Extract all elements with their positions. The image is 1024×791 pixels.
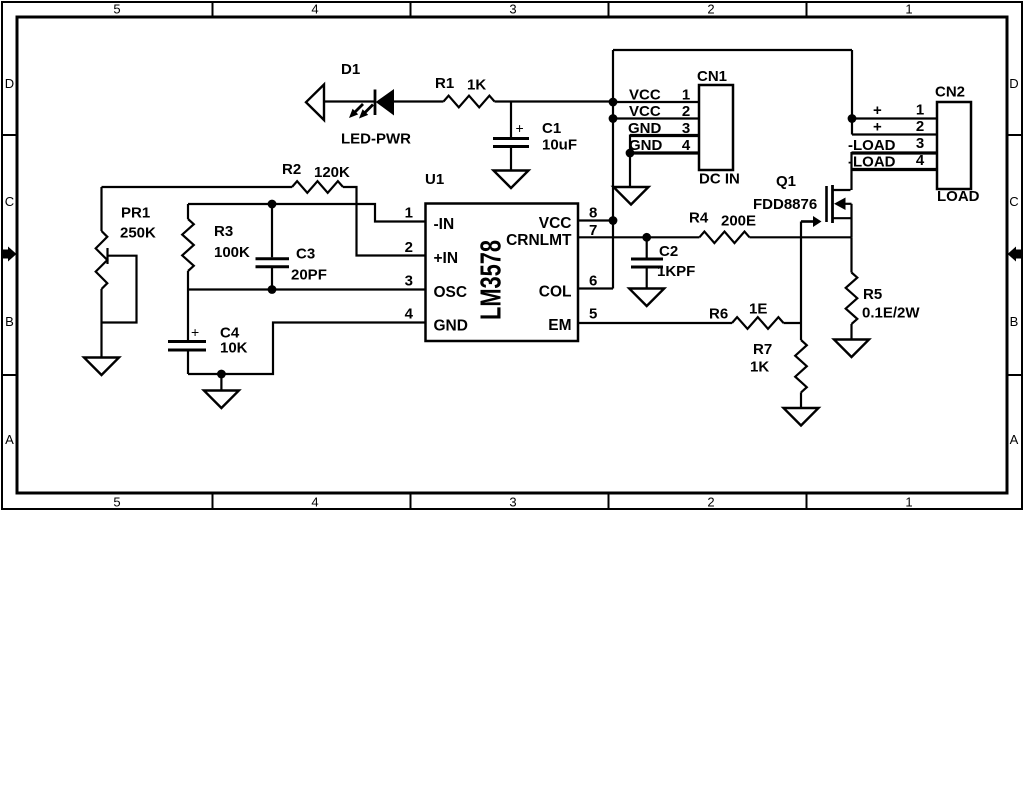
label LED-PWR: [341, 131, 411, 148]
label 10K (C4 value): [220, 340, 248, 357]
wire: CN2 side rail: [851, 50, 853, 135]
label 200E (R4 value): [721, 213, 756, 230]
svg-text:1: 1: [682, 87, 690, 104]
label R1: [435, 75, 454, 92]
label R7: [753, 341, 772, 358]
junction CN1 pin2: [609, 114, 618, 123]
wire: CRNLMT to R4: [578, 236, 699, 238]
svg-text:4: 4: [311, 495, 318, 510]
label D1: [341, 61, 360, 78]
label 1E (R6 value): [749, 301, 767, 318]
label R4: [689, 210, 709, 227]
junction ground net: [217, 370, 226, 379]
frame column labels bottom: [113, 495, 912, 510]
svg-text:OSC: OSC: [434, 284, 468, 301]
ground (R5): [834, 340, 869, 358]
wire: CN1 GND to ground: [629, 153, 631, 187]
connector CN2: [937, 102, 971, 189]
svg-text:COL: COL: [539, 284, 572, 301]
svg-text:D: D: [5, 76, 14, 91]
ground (CN1): [614, 187, 649, 205]
svg-text:-LOAD: -LOAD: [848, 154, 896, 171]
wire: R2 to U1 pin 2: [343, 187, 426, 256]
svg-text:4: 4: [311, 2, 318, 17]
label C4: [220, 325, 240, 342]
wire: CN2 pin 2: [852, 133, 937, 135]
svg-text:1: 1: [916, 102, 924, 119]
svg-text:5: 5: [589, 306, 597, 323]
svg-text:+: +: [516, 120, 524, 136]
wire: CN2 pin 3: [852, 151, 938, 154]
svg-text:4: 4: [682, 137, 691, 154]
svg-text:1K: 1K: [750, 359, 769, 376]
svg-text:Q1: Q1: [776, 173, 796, 190]
svg-text:B: B: [5, 314, 14, 329]
wire: CN1 pin 3 (GND): [630, 134, 699, 137]
pin 1 label: [405, 205, 413, 222]
svg-text:10uF: 10uF: [542, 137, 577, 154]
label LM3578: [476, 240, 508, 320]
svg-text:3: 3: [509, 495, 516, 510]
resistor R7: [795, 323, 807, 408]
svg-text:250K: 250K: [120, 225, 156, 242]
label VCC pin2: [629, 103, 690, 120]
svg-text:R6: R6: [709, 306, 728, 323]
svg-text:4: 4: [405, 306, 414, 323]
wire: D1 anode to R1: [394, 100, 444, 102]
svg-text:1: 1: [905, 2, 912, 17]
label C1: [542, 120, 561, 137]
wire: U1 pin 8 VCC stub: [578, 219, 613, 221]
svg-text:C3: C3: [296, 246, 315, 263]
pin name GND: [434, 318, 468, 335]
label 0.1E/2W (R5 value): [862, 305, 920, 322]
svg-text:PR1: PR1: [121, 205, 150, 222]
svg-text:R2: R2: [282, 161, 301, 178]
svg-text:A: A: [1010, 432, 1019, 447]
wire: EM pin 5 to R6: [578, 322, 732, 324]
svg-text:+: +: [873, 119, 882, 136]
power arrow (left terminal of D1): [306, 85, 324, 121]
svg-text:B: B: [1010, 314, 1019, 329]
pin name +IN: [434, 250, 459, 267]
svg-text:LM3578: LM3578: [476, 240, 508, 320]
svg-text:1K: 1K: [467, 77, 486, 94]
frame center arrow right: [1008, 247, 1023, 262]
wire: R4 to Q1 source node: [750, 236, 852, 238]
svg-text:EM: EM: [548, 317, 571, 334]
wire: ground stub: [220, 374, 222, 391]
svg-text:3: 3: [405, 273, 413, 290]
svg-text:-LOAD: -LOAD: [848, 137, 896, 154]
pin 7 label: [589, 222, 597, 239]
svg-text:VCC: VCC: [629, 103, 661, 120]
svg-text:D1: D1: [341, 61, 360, 78]
pin name COL: [539, 284, 572, 301]
label R2: [282, 161, 301, 178]
capacitor C1: [493, 102, 529, 171]
wire: VCC top rail: [613, 49, 852, 51]
junction VCC node / CN1 pin1: [609, 98, 618, 107]
svg-text:C: C: [1009, 194, 1018, 209]
border frame outer: [2, 2, 1022, 509]
ground (C2): [629, 289, 664, 307]
connector CN1: [699, 85, 733, 170]
svg-text:R4: R4: [689, 210, 709, 227]
ground (C1): [494, 171, 529, 189]
transistor Q1 FDD8876: [827, 185, 852, 237]
wire: CN1 pin 1 (VCC): [613, 101, 699, 103]
pin name EM: [548, 317, 571, 334]
wire: U1 pin 6 COL stub: [578, 287, 613, 289]
svg-text:GND: GND: [628, 120, 662, 137]
resistor R6: [732, 317, 784, 329]
label R3: [214, 223, 233, 240]
resistor R1: [444, 96, 495, 108]
capacitor C4: [168, 324, 206, 374]
svg-text:2: 2: [682, 103, 690, 120]
label FDD8876: [753, 196, 817, 213]
frame column ticks: [213, 2, 807, 509]
label -LOAD pin3: [848, 135, 924, 154]
svg-text:GND: GND: [434, 318, 468, 335]
pin 2 label: [405, 239, 413, 256]
capacitor C3: [256, 204, 290, 290]
svg-text:4: 4: [916, 152, 925, 169]
wire: gate riser: [800, 222, 802, 324]
junction CN2 + node: [848, 114, 857, 123]
wire: VCC left rail down to pin 6: [612, 50, 614, 289]
label LOAD: [937, 188, 980, 205]
svg-text:D: D: [1009, 76, 1018, 91]
label 10uF (C1 value): [542, 137, 577, 154]
label 100K (R3 value): [214, 244, 250, 261]
wire: CN1 pin 2 (VCC): [613, 117, 699, 119]
svg-text:C1: C1: [542, 120, 561, 137]
svg-text:R5: R5: [863, 286, 882, 303]
pin 3 label: [405, 273, 413, 290]
svg-text:1: 1: [405, 205, 413, 222]
label CN1: [697, 68, 727, 85]
wire: OSC line: [188, 288, 426, 290]
svg-text:20PF: 20PF: [291, 267, 327, 284]
junction C3 bottom: [268, 285, 277, 294]
wire: C4 bottom to U1 GND pin 4: [188, 323, 426, 375]
resistor R4: [699, 232, 749, 244]
junction C2: [642, 233, 651, 242]
svg-text:3: 3: [916, 135, 924, 152]
label Q1: [776, 173, 796, 190]
pin 5 label: [589, 306, 597, 323]
ground (C4): [204, 391, 239, 409]
svg-text:1: 1: [905, 495, 912, 510]
label + pin2: [873, 118, 924, 136]
pin name OSC: [434, 284, 468, 301]
svg-text:1E: 1E: [749, 301, 767, 318]
svg-text:LOAD: LOAD: [937, 188, 980, 205]
junction CN1 GND: [626, 149, 635, 158]
svg-text:3: 3: [509, 2, 516, 17]
label 250K (PR1 value): [120, 225, 156, 242]
frame row ticks: [2, 135, 1022, 375]
frame row labels left: [5, 76, 14, 447]
gate drive arrow: [801, 216, 822, 227]
label R5: [863, 286, 882, 303]
potentiometer PR1: [96, 187, 137, 358]
pin 4 label: [405, 306, 414, 323]
wire: CN1 pin 4 (GND): [630, 135, 699, 154]
wire: R1 to VCC node: [495, 100, 614, 102]
svg-text:-IN: -IN: [434, 216, 455, 233]
pin 8 label: [589, 205, 597, 222]
svg-text:CRNLMT: CRNLMT: [506, 232, 572, 249]
svg-text:+IN: +IN: [434, 250, 459, 267]
svg-text:0.1E/2W: 0.1E/2W: [862, 305, 920, 322]
svg-text:CN1: CN1: [697, 68, 727, 85]
resistor R2: [292, 181, 343, 193]
svg-text:2: 2: [707, 2, 714, 17]
svg-text:C2: C2: [659, 243, 678, 260]
svg-text:DC IN: DC IN: [699, 171, 740, 188]
svg-text:LED-PWR: LED-PWR: [341, 131, 411, 148]
svg-text:FDD8876: FDD8876: [753, 196, 817, 213]
label C3: [296, 246, 315, 263]
frame column labels top: [113, 2, 912, 17]
svg-text:10K: 10K: [220, 340, 248, 357]
wire: R6 to gate node: [784, 322, 802, 324]
label 1K (R7 value): [750, 359, 769, 376]
svg-text:R7: R7: [753, 341, 772, 358]
label U1: [425, 171, 444, 188]
resistor R3: [182, 204, 194, 340]
label 1K (R1 value): [467, 77, 486, 94]
wire: CN2 pin 4: [852, 168, 938, 171]
svg-text:R1: R1: [435, 75, 454, 92]
label 20PF (C3 value): [291, 267, 327, 284]
svg-text:120K: 120K: [314, 164, 350, 181]
ground (R7): [784, 408, 819, 426]
label CN2: [935, 84, 965, 101]
pin name VCC: [539, 215, 572, 232]
svg-text:A: A: [5, 432, 14, 447]
svg-text:VCC: VCC: [539, 215, 572, 232]
frame row labels right: [1009, 76, 1018, 447]
label R6: [709, 306, 728, 323]
svg-text:6: 6: [589, 273, 597, 290]
pin name -IN: [434, 216, 455, 233]
pin name CRNLMT: [506, 232, 572, 249]
wire: power arrow to D1 cathode: [324, 100, 374, 102]
label 1KPF (C2 value): [657, 263, 695, 280]
junction C3 top: [268, 200, 277, 209]
svg-text:+: +: [191, 324, 199, 340]
resistor R5: [846, 237, 858, 339]
svg-text:U1: U1: [425, 171, 444, 188]
svg-text:5: 5: [113, 2, 120, 17]
wire: PR1 top to R2: [102, 186, 293, 188]
svg-text:C: C: [5, 194, 14, 209]
border frame inner: [17, 17, 1007, 493]
svg-text:2: 2: [916, 118, 924, 135]
label C2: [659, 243, 678, 260]
junction pin8 VCC: [609, 216, 618, 225]
svg-text:R3: R3: [214, 223, 233, 240]
svg-text:+: +: [873, 102, 882, 119]
label GND pin4: [629, 137, 691, 154]
label 120K (R2 value): [314, 164, 350, 181]
svg-text:CN2: CN2: [935, 84, 965, 101]
label PR1: [121, 205, 150, 222]
op-amp U1 LM3578: [426, 204, 579, 342]
svg-text:5: 5: [113, 495, 120, 510]
svg-text:2: 2: [405, 239, 413, 256]
label -LOAD pin4: [848, 152, 925, 171]
wire: CN2 pin 1: [852, 117, 937, 119]
svg-text:3: 3: [682, 120, 690, 137]
pin 6 label: [589, 273, 597, 290]
capacitor C2: [631, 237, 663, 288]
wire: -LOAD riser to Q1 drain: [850, 152, 852, 190]
svg-text:200E: 200E: [721, 213, 756, 230]
label VCC pin1: [629, 87, 690, 104]
wire: R3 top rail to -IN: [188, 204, 426, 222]
svg-text:8: 8: [589, 205, 597, 222]
label + pin1: [873, 102, 924, 120]
LED D1: [349, 90, 394, 119]
svg-text:100K: 100K: [214, 244, 250, 261]
svg-text:1KPF: 1KPF: [657, 263, 695, 280]
frame center arrow left: [2, 247, 17, 262]
label DC IN: [699, 171, 740, 188]
svg-text:VCC: VCC: [629, 87, 661, 104]
label GND pin3: [628, 120, 690, 137]
ground (PR1): [84, 358, 119, 376]
svg-text:2: 2: [707, 495, 714, 510]
